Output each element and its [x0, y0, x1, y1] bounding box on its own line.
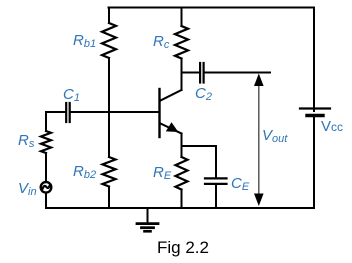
svg-text:Fig 2.2: Fig 2.2 [157, 238, 209, 257]
svg-text:Vcc: Vcc [321, 118, 343, 135]
